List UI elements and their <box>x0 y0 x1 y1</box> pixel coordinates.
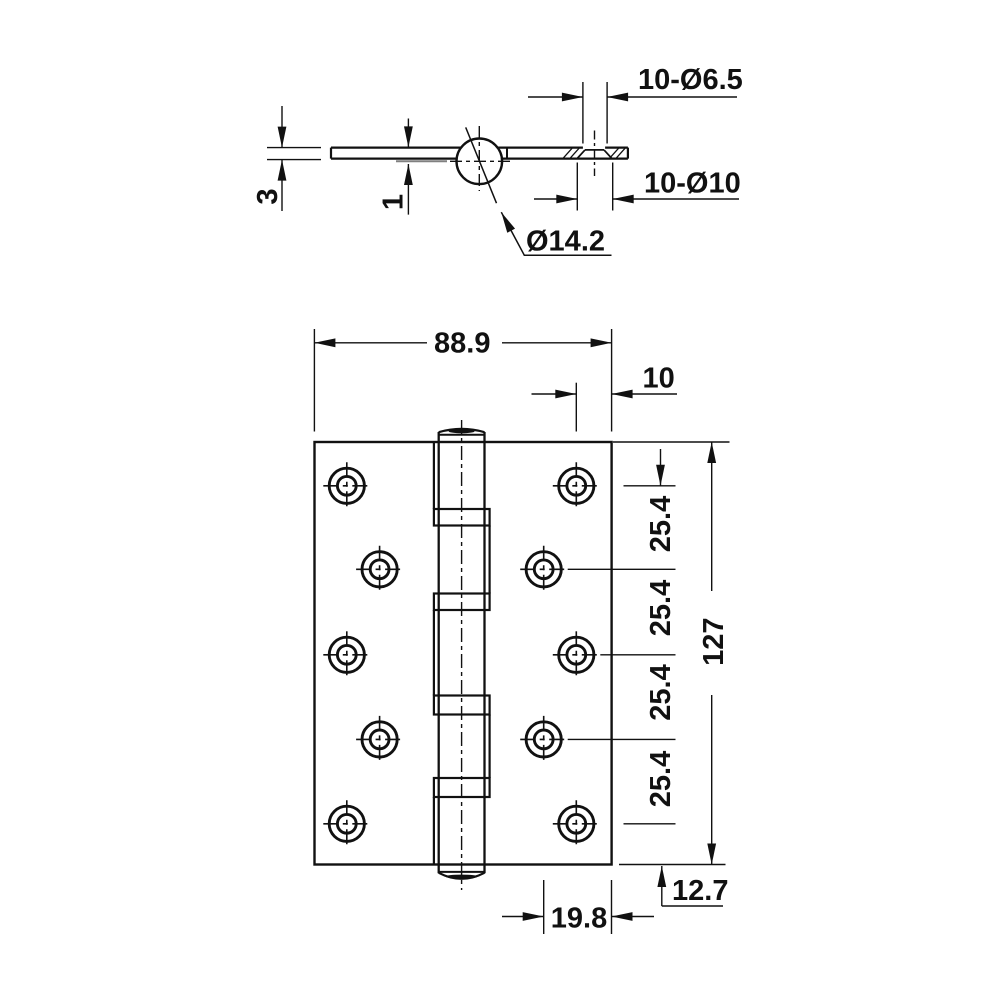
svg-text:Ø14.2: Ø14.2 <box>526 226 605 258</box>
svg-text:25.4: 25.4 <box>645 496 677 552</box>
svg-text:12.7: 12.7 <box>672 875 728 907</box>
svg-text:3: 3 <box>252 188 284 204</box>
svg-text:10: 10 <box>643 363 675 395</box>
svg-text:10-Ø6.5: 10-Ø6.5 <box>638 64 743 96</box>
svg-text:127: 127 <box>698 618 730 666</box>
svg-text:1: 1 <box>378 194 410 210</box>
svg-text:25.4: 25.4 <box>645 664 677 720</box>
svg-text:25.4: 25.4 <box>645 580 677 636</box>
svg-text:10-Ø10: 10-Ø10 <box>644 168 741 200</box>
svg-text:25.4: 25.4 <box>645 751 677 807</box>
svg-text:88.9: 88.9 <box>434 328 490 360</box>
svg-text:19.8: 19.8 <box>551 903 607 935</box>
